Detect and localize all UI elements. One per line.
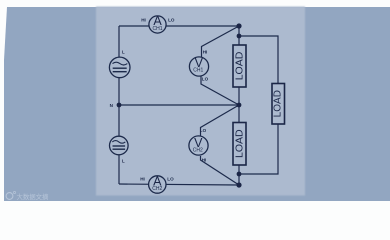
svg-text:CH2: CH2 [193, 148, 203, 154]
svg-text:HI: HI [202, 157, 207, 162]
svg-text:LO: LO [200, 128, 207, 133]
svg-text:L: L [122, 159, 125, 164]
svg-text:LO: LO [167, 177, 174, 182]
svg-text:HI: HI [140, 177, 145, 182]
svg-text:LO: LO [202, 77, 209, 82]
svg-text:LOAD: LOAD [234, 129, 246, 158]
svg-text:LO: LO [168, 18, 175, 23]
svg-text:CH1: CH1 [152, 26, 162, 32]
svg-text:HI: HI [141, 18, 146, 23]
svg-text:LOAD: LOAD [234, 51, 246, 80]
svg-text:CH1: CH1 [193, 67, 203, 73]
svg-text:HI: HI [203, 49, 208, 54]
svg-text:大数据文摘: 大数据文摘 [17, 192, 50, 201]
svg-text:LOAD: LOAD [273, 90, 284, 117]
svg-text:L: L [122, 49, 125, 54]
svg-text:CH2: CH2 [152, 186, 162, 192]
